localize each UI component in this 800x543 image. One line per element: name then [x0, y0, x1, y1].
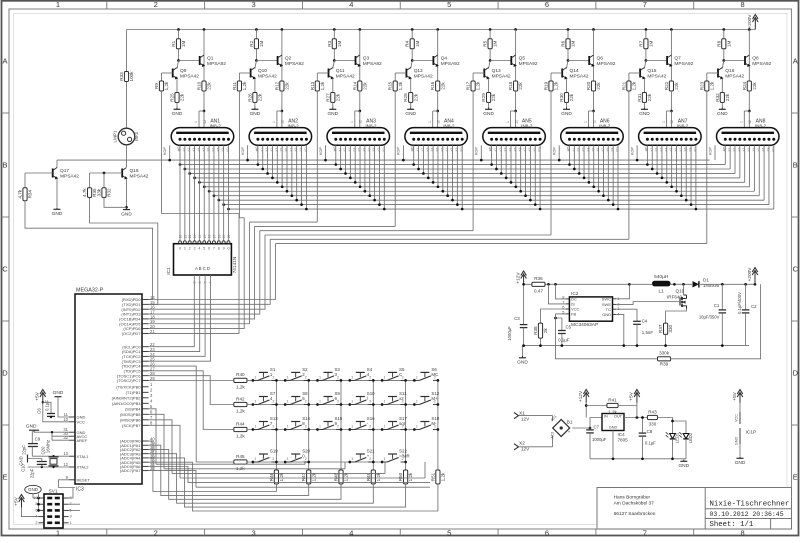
wire tube AN8 pin 0 drop	[724, 145, 726, 164]
resistor R43 330	[647, 415, 657, 419]
wire R34 to IC3 PD0	[25, 201, 153, 300]
svg-text:22k: 22k	[285, 82, 290, 90]
capacitor C8 0.1uF	[642, 418, 644, 434]
svg-text:12V: 12V	[521, 416, 530, 421]
wire tube AN7 pin K4	[666, 145, 668, 182]
svg-text:R23: R23	[699, 81, 704, 90]
wire to IC4 IN	[590, 418, 602, 429]
svg-text:100k: 100k	[129, 71, 134, 82]
wire tube AN1 pin K10	[227, 208, 230, 211]
svg-text:+: +	[367, 454, 370, 459]
wire R21 to anode drive line	[628, 91, 630, 239]
svg-text:1M: 1M	[415, 40, 420, 47]
wire R12 to anode node	[281, 91, 283, 111]
svg-text:R10: R10	[197, 81, 202, 90]
IC3 pin 12 XTAL2	[69, 466, 75, 468]
wire tube AN7 pin K7	[680, 145, 682, 195]
wire tube AN1 pin K3 to IC1	[194, 145, 196, 238]
wire keypad row 2	[247, 404, 414, 406]
IC1 output pin 1	[184, 238, 186, 241]
svg-text:MPSA42: MPSA42	[60, 174, 79, 180]
wire tube AN1 pin K4 to IC1	[198, 145, 200, 238]
svg-text:7805: 7805	[618, 437, 629, 442]
wire tube AN6 pin K3	[583, 145, 585, 178]
svg-text:GND: GND	[735, 437, 739, 446]
resistor R15 1,2k	[395, 72, 406, 74]
wire tube AN6 pin K1	[573, 145, 575, 169]
capacitor C1 10uF/350V	[721, 284, 723, 310]
svg-text:1: 1	[351, 457, 353, 461]
svg-text:C7: C7	[594, 425, 600, 430]
transistor Q16 MPSA42	[722, 61, 724, 69]
wire tube AN5 pin K0	[491, 145, 493, 164]
svg-text:=/MR: =/MR	[399, 454, 410, 459]
svg-text:MEGA32-P: MEGA32-P	[76, 288, 104, 294]
wire tube AN2 pin K5	[281, 145, 283, 187]
svg-text:Q10: Q10	[258, 68, 267, 74]
wire tube AN7 pin K5	[671, 145, 673, 187]
wire X1 to B1	[519, 415, 553, 417]
svg-text:R39: R39	[660, 362, 669, 367]
svg-text:GND: GND	[19, 456, 24, 465]
svg-text:2: 2	[337, 400, 339, 404]
svg-text:22pF: 22pF	[30, 468, 35, 478]
wire tube AN5 pin K7	[525, 145, 527, 195]
svg-text:12: 12	[670, 120, 674, 124]
IC3 pin 38 (ADC2)PA2	[142, 448, 149, 450]
svg-text:IN8-2: IN8-2	[287, 123, 299, 128]
wire tube AN6 pin K7	[602, 145, 604, 195]
switch S13 7	[252, 428, 255, 431]
ground power section	[522, 356, 524, 358]
svg-text:6: 6	[545, 528, 549, 537]
resistor R37 330	[664, 323, 668, 334]
wire anode drive net A3	[249, 221, 317, 223]
svg-text:GND: GND	[250, 111, 261, 117]
wire R11 to anode drive line	[238, 91, 240, 218]
svg-text:Hans Borngräber: Hans Borngräber	[614, 495, 651, 501]
IC1 output pin 8	[218, 238, 220, 241]
transistor Q8 MPSA92	[748, 30, 750, 82]
wire tube AN3 pin K9	[378, 145, 380, 204]
svg-text:KOP: KOP	[319, 147, 323, 155]
wire anode drive net A5	[260, 230, 473, 232]
wire keypad matrix return 2	[164, 468, 345, 470]
svg-text:1M: 1M	[493, 40, 498, 47]
switch S21 +	[348, 461, 351, 464]
wire tube AN5 pin K10	[539, 145, 541, 209]
svg-text:0.1µF: 0.1µF	[645, 441, 656, 446]
wire keypad matrix return 5	[188, 482, 430, 484]
wire tube AN3 pin K0	[335, 145, 337, 164]
wire tube AN1 pin K5	[203, 185, 206, 188]
svg-text:+12V: +12V	[515, 272, 521, 284]
transistor Q5 MPSA92	[515, 30, 517, 82]
wire tube AN3 pin K2	[345, 145, 347, 173]
wire tube AN2 pin K10	[305, 145, 307, 209]
wire tube AN1 pin K4	[198, 181, 201, 184]
svg-text:R43: R43	[648, 409, 657, 414]
wire tube AN8 pin 4 drop	[744, 145, 746, 182]
svg-text:IN8-2: IN8-2	[677, 123, 689, 128]
switch S8 5	[284, 403, 287, 406]
svg-text:1: 1	[56, 528, 60, 537]
svg-text:1M: 1M	[726, 40, 731, 47]
IC3 pin 23 (SDA)PC1	[142, 351, 149, 353]
svg-text:Q12: Q12	[414, 68, 423, 74]
SV1 pin row 2	[39, 509, 45, 511]
svg-text:C: C	[2, 265, 8, 274]
wire tube AN8 pin 9 drop	[768, 145, 770, 204]
IC1 input pin 2	[204, 275, 206, 280]
resistor R45 1,2k	[234, 460, 247, 464]
wire rail to IC2 DC	[556, 284, 566, 299]
svg-text:1: 1	[254, 400, 256, 404]
svg-text:540µH: 540µH	[654, 274, 669, 280]
svg-text:XTAL1: XTAL1	[77, 454, 90, 459]
switch S3 3	[316, 379, 319, 382]
resistor R17 1,2k	[473, 72, 484, 74]
wire tube AN3 pin K4	[354, 145, 356, 182]
svg-text:22k: 22k	[362, 82, 367, 90]
svg-text:6: 6	[545, 0, 549, 9]
svg-text:4: 4	[198, 246, 200, 250]
svg-text:D1: D1	[703, 278, 709, 283]
svg-text:1: 1	[416, 425, 418, 429]
wire tube AN1 pin K0	[179, 163, 182, 166]
IC3 pin 19 (OC1A)PD5	[142, 323, 149, 325]
svg-text:R27: R27	[325, 93, 330, 102]
wire R19 to anode drive line	[550, 91, 552, 235]
svg-text:9: 9	[223, 246, 225, 250]
svg-text:A: A	[793, 57, 798, 66]
wire Q18 base	[90, 172, 123, 174]
svg-text:IN8-2: IN8-2	[443, 123, 455, 128]
svg-text:1: 1	[384, 375, 386, 379]
resistor R50 1,2k	[404, 470, 408, 484]
svg-text:33k: 33k	[97, 188, 102, 196]
wire anode drive net A1	[162, 213, 240, 215]
IC3 pin 4 (AIN1/OC0)PB3	[142, 402, 149, 404]
wire tube AN5 pin K2	[500, 145, 502, 173]
transistor Q10 MPSA42	[255, 61, 257, 69]
svg-text:2k: 2k	[543, 327, 548, 333]
svg-text:2: 2	[337, 375, 339, 379]
resistor R42 1,2k	[234, 402, 247, 406]
svg-text:R7: R7	[638, 40, 643, 46]
resistor R31 22k	[643, 79, 645, 93]
wire column 1 to IC3	[149, 441, 277, 492]
wire R3 to base node	[333, 49, 335, 61]
wire tube AN8 pin 5 drop	[749, 145, 751, 187]
frame row tick	[2, 320, 10, 322]
nixie tube AN2 IN8-2	[249, 128, 312, 146]
svg-text:C8: C8	[647, 429, 653, 434]
resistor R36 0.47	[532, 282, 545, 286]
wire rail to IC2 IS	[549, 284, 566, 304]
svg-text:1: 1	[287, 425, 289, 429]
wire tube AN1 pin K0 to IC1	[179, 145, 181, 238]
wire tube AN2 pin K8	[296, 145, 298, 200]
+5V arrow at IC3 VCC	[42, 394, 44, 403]
svg-text:1,2k: 1,2k	[164, 81, 169, 90]
svg-text:1: 1	[351, 400, 353, 404]
wire tube AN2 pin K7	[291, 145, 293, 195]
svg-text:10: 10	[179, 235, 183, 239]
svg-text:1: 1	[428, 121, 432, 123]
wire cathode bus K5	[204, 186, 749, 188]
wire IC1 input 1 to IC3	[149, 280, 200, 352]
svg-text:AREF: AREF	[77, 438, 88, 443]
wire keypad column 2	[308, 380, 310, 470]
wire tube AN8 pin 1 drop	[729, 145, 731, 169]
switch S17 sqr	[381, 428, 384, 431]
svg-text:12: 12	[514, 120, 518, 124]
resistor R8 1M	[723, 30, 725, 39]
svg-text:MC: MC	[431, 372, 438, 377]
svg-text:1: 1	[416, 400, 418, 404]
wire keypad matrix return 4	[180, 477, 425, 479]
switch S6 MC	[413, 379, 416, 382]
svg-text:x2: x2	[399, 396, 404, 401]
resistor R11 1,2k	[239, 72, 250, 74]
svg-text:R34: R34	[28, 190, 33, 199]
IC2 pin 3 TC	[613, 308, 617, 310]
transistor Q2 MPSA92	[281, 30, 283, 82]
wire keypad column 1	[275, 380, 277, 470]
svg-text:MPSA42: MPSA42	[258, 74, 277, 80]
IC3 pin 33 (ADC7)PA7	[142, 470, 149, 472]
wire tube AN2 pin K4	[276, 145, 278, 182]
wire tube AN4 pin K1	[418, 145, 420, 169]
svg-text:2: 2	[154, 0, 158, 9]
wire tube AN6 pin K0	[569, 145, 571, 164]
wire tube AN4 KOP pin	[402, 145, 404, 160]
wire LMP1 to Q18 collector	[126, 145, 128, 167]
svg-text:R40: R40	[236, 372, 245, 377]
svg-text:1: 1	[506, 121, 510, 123]
svg-text:R30: R30	[559, 93, 564, 102]
svg-text:D: D	[2, 369, 8, 378]
wire keypad row 1	[247, 379, 414, 381]
wire anode drive net A6	[265, 234, 551, 236]
wire anode node to tube AN5	[511, 110, 516, 112]
IC3 pin 2 (T1)PB1	[142, 391, 149, 393]
transistor Q14 MPSA42	[567, 61, 569, 69]
svg-text:1000µF: 1000µF	[592, 437, 607, 442]
svg-text:M+: M+	[431, 396, 438, 401]
node rail junction cell 2	[255, 28, 258, 31]
nixie tube AN4 IN8-2	[405, 128, 468, 146]
wire tube AN1 pin K9 to IC1	[223, 145, 225, 238]
svg-text:22k: 22k	[180, 93, 185, 101]
svg-text:GND: GND	[483, 111, 494, 117]
SV1 pin row 4	[39, 522, 45, 524]
svg-text:GND: GND	[735, 460, 746, 466]
svg-text:C: C	[399, 372, 402, 377]
wire R15 to anode drive line	[394, 91, 396, 226]
svg-text:12: 12	[281, 120, 285, 124]
IC3 pin 36 (ADC4)PA4	[142, 457, 149, 459]
svg-text:B: B	[2, 161, 7, 170]
node rail junction cell 5	[489, 28, 492, 31]
wire tube AN4 pin K8	[452, 145, 454, 200]
svg-text:12: 12	[188, 235, 192, 239]
wire Q19 gate to IC2 SWE	[616, 302, 680, 305]
svg-text:2: 2	[189, 246, 191, 250]
svg-text:FB: FB	[571, 312, 576, 317]
wire IC2 FB to R39 net	[556, 314, 658, 359]
wire R43 to LEDs	[658, 418, 673, 434]
crystal Q20 16MHz	[49, 456, 59, 458]
wire tube AN6 pin K8	[607, 145, 609, 200]
svg-text:R32: R32	[715, 93, 720, 102]
wire keypad matrix return 1	[156, 463, 305, 465]
wire tube AN4 pin K5	[437, 145, 439, 187]
svg-text:R12: R12	[274, 81, 279, 90]
wire tube AN4 pin K7	[447, 145, 449, 195]
svg-text:Q13: Q13	[492, 68, 501, 74]
wire tube AN3 pin K3	[349, 145, 351, 178]
wire tube AN1 pin K9	[222, 203, 225, 206]
svg-text:C6: C6	[37, 408, 42, 414]
ground below Q18	[126, 208, 128, 210]
wire tube AN6 pin K5	[593, 145, 595, 187]
svg-text:1: 1	[416, 375, 418, 379]
nixie tube AN6 IN8-2	[561, 128, 624, 146]
svg-text:1: 1	[319, 400, 321, 404]
wire IC1 input 2 to IC3	[149, 280, 206, 357]
svg-text:Sheet: 1/1: Sheet: 1/1	[710, 521, 754, 529]
svg-text:2: 2	[305, 457, 307, 461]
wire X2 to B1	[519, 446, 553, 448]
IC1 input pin 0	[193, 275, 195, 280]
svg-text:2: 2	[272, 400, 274, 404]
svg-text:B: B	[793, 161, 798, 170]
transistor Q17 MPSA42	[56, 160, 58, 167]
wire tube AN2 pin K2	[267, 145, 269, 173]
IC3 pin 10 VCC	[69, 421, 75, 423]
wire tube AN5 pin K6	[520, 145, 522, 191]
svg-text:1M: 1M	[649, 40, 654, 47]
svg-text:22k: 22k	[258, 93, 263, 101]
ground below R25	[176, 103, 178, 108]
switch S15 9	[316, 428, 319, 431]
IC3 pin 9 RESET	[69, 479, 75, 481]
svg-text:8: 8	[218, 246, 220, 250]
microcontroller IC3 MEGA32-P	[75, 294, 142, 484]
svg-text:KOP: KOP	[163, 147, 167, 155]
svg-text:KOP: KOP	[630, 147, 634, 155]
svg-text:GND: GND	[52, 211, 63, 217]
frame column tick	[399, 1, 401, 9]
resistor R41 1,2k	[607, 403, 618, 407]
svg-text:66127 Saarbrücken: 66127 Saarbrücken	[614, 511, 656, 517]
svg-text:R15: R15	[388, 81, 393, 90]
svg-text:MPSA42: MPSA42	[725, 74, 744, 80]
svg-text:4,7k: 4,7k	[82, 188, 87, 197]
svg-text:GND: GND	[717, 111, 728, 117]
svg-text:12: 12	[359, 120, 363, 124]
transistor Q18 MPSA42	[121, 169, 123, 178]
svg-text:8: 8	[741, 528, 745, 537]
IC1 output pin 10	[228, 238, 230, 241]
wire R7 to base node	[645, 49, 647, 61]
wire tube AN7 pin K6	[676, 145, 678, 191]
wire tube AN1 pin K7	[213, 194, 216, 197]
svg-text:Q6: Q6	[597, 55, 604, 61]
svg-text:1: 1	[384, 425, 386, 429]
svg-text:+5V: +5V	[35, 391, 41, 400]
svg-text:Q5: Q5	[519, 55, 526, 61]
svg-text:22k: 22k	[207, 82, 212, 90]
wire tube AN1 KOP pin	[169, 145, 171, 160]
IC3 pin 29 (TOSC2)PC7	[142, 380, 149, 382]
svg-text:R18: R18	[508, 81, 513, 90]
switch S12 M+	[413, 403, 416, 406]
svg-text:+5V: +5V	[732, 391, 738, 400]
wire tube AN1 pin K1	[184, 168, 187, 171]
svg-text:IC3: IC3	[76, 487, 84, 493]
IC3 pin 15 (TXD)PD1	[142, 303, 149, 305]
svg-text:1,2k: 1,2k	[408, 472, 413, 481]
svg-text:R33: R33	[119, 72, 124, 81]
svg-text:12: 12	[437, 120, 441, 124]
IC1 output pin 3	[194, 238, 196, 241]
IC2 pin 7 IS	[566, 303, 570, 305]
svg-text:12: 12	[748, 120, 752, 124]
IC3 pin 24 (TCK)PC2	[142, 355, 149, 357]
wire tube AN3 pin K1	[340, 145, 342, 169]
wire tube AN7 pin K0	[646, 145, 648, 164]
svg-text:22k: 22k	[413, 93, 418, 101]
wire tube AN6 pin K2	[578, 145, 580, 173]
svg-text:15: 15	[203, 235, 207, 239]
IC3 pin 30 AVCC	[69, 435, 75, 437]
svg-text:(SS)PB4: (SS)PB4	[125, 406, 141, 411]
svg-text:IN: IN	[604, 415, 608, 419]
svg-text:Q2: Q2	[285, 55, 292, 61]
svg-text:R29: R29	[481, 93, 486, 102]
svg-text:GND: GND	[121, 211, 132, 217]
LED2	[683, 434, 689, 439]
svg-text:22k: 22k	[752, 82, 757, 90]
wire tube AN1 pin K8	[217, 199, 220, 202]
svg-text:22pF: 22pF	[22, 445, 27, 455]
+12V arrow at R36	[523, 275, 525, 284]
frame column tick	[106, 1, 108, 9]
IC3 pin 31 GND	[69, 431, 75, 433]
resistor R9 1,2k	[162, 72, 173, 74]
resistor R48 1,2k	[339, 470, 343, 484]
svg-text:VCC: VCC	[735, 414, 739, 422]
node rail junction cell 1	[177, 28, 180, 31]
IC3 pin 16 (INT0)PD2	[142, 308, 149, 310]
IC1 output pin 5	[203, 238, 205, 241]
wire IC4 OUT to R43	[624, 417, 647, 419]
svg-text:RESET: RESET	[77, 477, 91, 482]
wire R40 to IC3 PC7	[149, 380, 234, 382]
svg-text:GND: GND	[327, 111, 338, 117]
svg-text:2: 2	[337, 425, 339, 429]
svg-text:1,2k: 1,2k	[554, 81, 559, 90]
wire R44 to IC3 PC5	[149, 371, 234, 430]
wire column 5 to IC3	[149, 458, 406, 507]
wire tube AN2 KOP pin	[247, 145, 249, 160]
switch S7 4	[252, 403, 255, 406]
wire tube AN8 pin 2 drop	[734, 145, 736, 173]
svg-text:OUT: OUT	[614, 415, 623, 419]
